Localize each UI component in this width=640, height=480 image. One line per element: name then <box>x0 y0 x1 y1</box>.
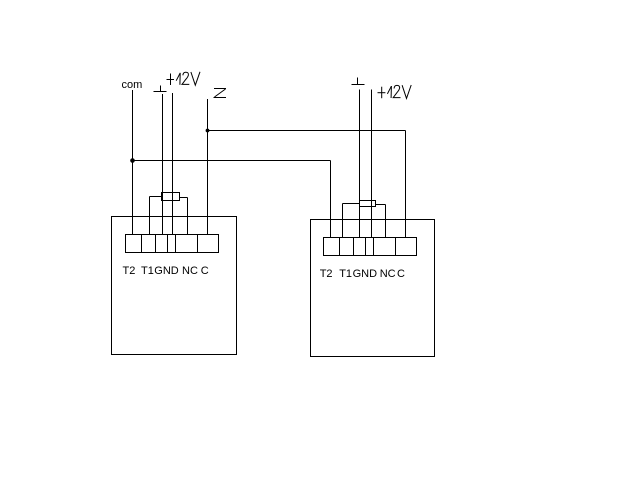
wire com to T2 terminal M1 <box>132 90 134 235</box>
label +12V M2 <box>378 85 412 98</box>
terminal block TB1 <box>126 235 219 253</box>
ground symbol M2 <box>352 78 365 85</box>
svg-text:T2T1GNDNCC: T2T1GNDNCC <box>123 265 209 277</box>
wire +12V to terminal M2 <box>371 90 373 238</box>
label +12V M1 <box>166 72 200 85</box>
symbol Z (net label) <box>214 89 227 98</box>
wire +12V to terminal M1 <box>172 93 174 235</box>
wire T1 terminal M2 to R2 <box>343 204 360 238</box>
node junction: net A at Z wire <box>206 129 210 133</box>
module box M2 <box>311 220 435 357</box>
svg-text:com: com <box>122 79 143 91</box>
component R2 <box>360 201 376 207</box>
ground symbol M1 <box>154 86 167 92</box>
wire R2 to NC terminal M2 <box>376 205 386 238</box>
component R1 <box>162 193 180 201</box>
node junction: net B at com wire <box>130 158 135 163</box>
module box M1 <box>112 217 237 355</box>
wire R1 to NC terminal M1 <box>180 198 188 235</box>
terminal block TB2 <box>324 238 417 256</box>
wire Z to C terminal M1 <box>207 99 209 235</box>
wire ground to GND terminal M2 <box>359 90 361 238</box>
svg-text:T2T1GNDNCC: T2T1GNDNCC <box>320 268 405 280</box>
wire net B: com to T2 terminal M2 <box>133 161 331 238</box>
wire net A: C terminal M1 to C terminal M2 <box>208 131 406 238</box>
wire T1 terminal M1 to R1 <box>150 197 162 235</box>
wire ground to GND terminal M1 <box>162 94 164 235</box>
